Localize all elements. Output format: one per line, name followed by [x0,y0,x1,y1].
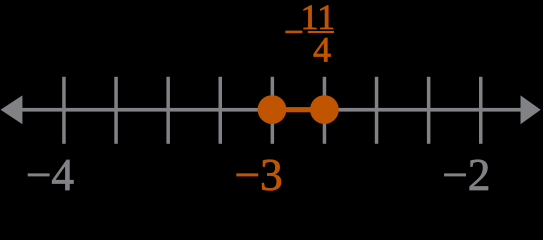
tick at -3.75 [114,77,118,144]
tick at -3.5 [166,77,170,144]
svg-text:−4: −4 [26,150,74,200]
fraction label -11/4 : minus sign [285,31,302,34]
tick at -2 [479,77,483,144]
tick at -2.25 [427,77,431,144]
svg-text:4: 4 [313,29,331,69]
point at -3 [258,95,287,124]
tick at -4 [62,77,65,144]
right arrowhead [521,95,541,124]
tick at -3.25 [219,77,223,144]
orange segment from -3 to -11/4 [272,107,325,112]
svg-text:−3: −3 [234,150,282,200]
left arrowhead [1,95,23,124]
svg-text:−2: −2 [442,150,490,200]
number line axis [18,108,523,112]
tick at -2.5 [375,77,379,144]
tick at -3 [271,77,275,144]
point at -11/4 [310,95,339,124]
tick at -2.75 [323,77,327,144]
fraction bar [308,31,334,33]
